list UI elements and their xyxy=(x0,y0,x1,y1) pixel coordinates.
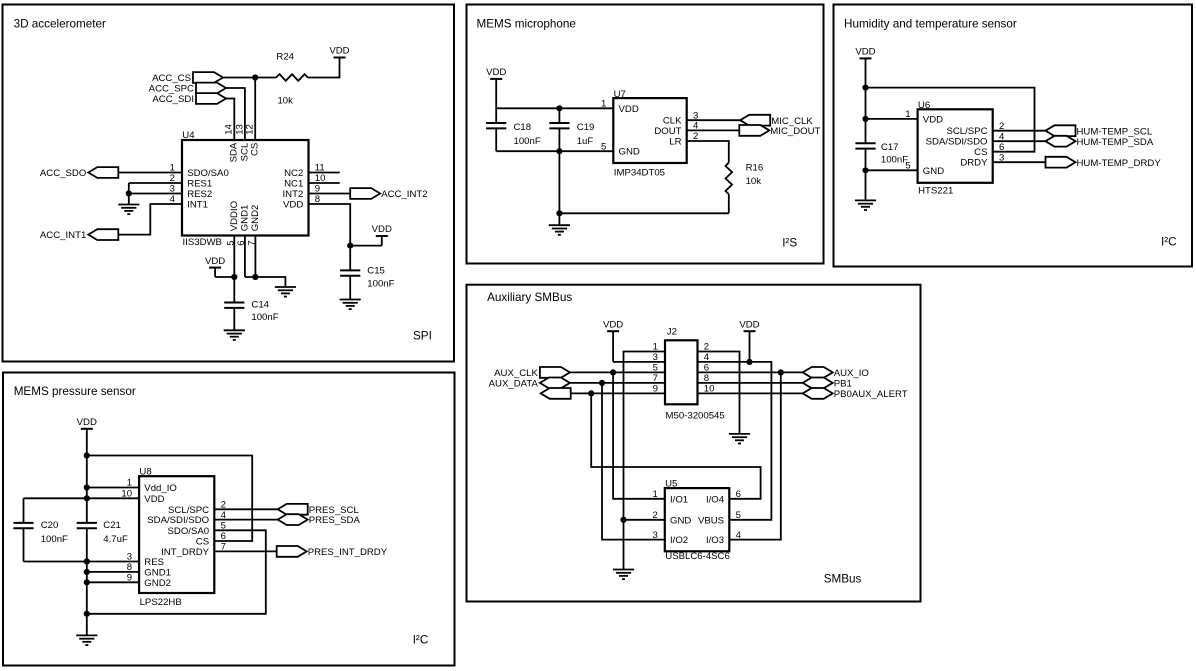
net flag ACC_INT1 xyxy=(40,229,118,241)
net flag HUM-TEMP_DRDY xyxy=(1046,157,1162,169)
U5 left pin names and numbers xyxy=(652,489,691,546)
wire R24 to VDD xyxy=(308,58,340,78)
wire VDD to U6 pin 1 xyxy=(866,118,918,120)
svg-text:I/O1: I/O1 xyxy=(670,494,688,505)
svg-text:GND2: GND2 xyxy=(250,205,261,232)
svg-text:RES: RES xyxy=(144,557,164,568)
net flag PRES_SDA xyxy=(278,514,361,526)
svg-text:AUX_CLK: AUX_CLK xyxy=(494,368,538,379)
svg-text:RES2: RES2 xyxy=(187,189,212,200)
svg-text:HUM-TEMP_DRDY: HUM-TEMP_DRDY xyxy=(1077,158,1162,169)
panel auxiliary SMBus xyxy=(467,285,921,602)
junction VDD / U8 pin 1 xyxy=(84,484,90,490)
svg-text:SDA/SDI/SDO: SDA/SDI/SDO xyxy=(147,515,209,526)
net flag PB1 xyxy=(803,378,852,390)
svg-text:VDD: VDD xyxy=(329,46,349,57)
svg-text:C14: C14 xyxy=(251,300,269,311)
power flag VDD (LPS22HB) xyxy=(77,417,97,456)
panel MEMS pressure sensor xyxy=(3,373,455,666)
svg-text:4: 4 xyxy=(736,530,742,541)
svg-text:VDD: VDD xyxy=(855,47,875,58)
svg-text:MEMS microphone: MEMS microphone xyxy=(477,18,576,31)
svg-text:C15: C15 xyxy=(367,266,385,277)
svg-text:VDD: VDD xyxy=(619,104,639,115)
svg-text:ACC_CS: ACC_CS xyxy=(152,73,191,84)
svg-text:CS: CS xyxy=(250,143,261,156)
wire U4 pin 7 GND2 down xyxy=(254,236,256,278)
power flag VDD (HTS221) xyxy=(855,47,875,88)
wire C20 top stub xyxy=(23,498,25,523)
svg-text:I²C: I²C xyxy=(413,634,429,647)
wire U8 SCL/SPC to flag xyxy=(214,508,277,510)
wire VDD rail down to C17 xyxy=(865,88,867,144)
wire J2 pin 1 to U5 GND xyxy=(624,352,666,520)
svg-text:9: 9 xyxy=(127,573,132,584)
U4 bottom pin names and numbers xyxy=(226,201,262,246)
wire VDD to VDDIO net xyxy=(215,276,234,278)
svg-text:DRDY: DRDY xyxy=(960,158,988,169)
wire C20 bottom stub xyxy=(23,528,25,561)
svg-text:R24: R24 xyxy=(276,52,294,63)
net flag PB0AUX_ALERT xyxy=(803,388,908,400)
junction ground / R16 return xyxy=(556,210,562,216)
svg-text:100nF: 100nF xyxy=(251,312,278,323)
wire ground stem xyxy=(558,213,560,225)
svg-text:3: 3 xyxy=(127,552,132,563)
J2 right pin numbers xyxy=(704,342,715,395)
wire AUX_DATA branch to U5 pin 3 xyxy=(602,383,665,540)
svg-text:PB1: PB1 xyxy=(834,379,852,390)
net flag AUX_IO xyxy=(803,367,869,379)
svg-text:U5: U5 xyxy=(665,478,677,489)
svg-text:SDO/SA0: SDO/SA0 xyxy=(168,526,210,537)
wire U8 SDA to flag xyxy=(214,519,277,521)
junction U4 VDD / C15 xyxy=(347,243,353,249)
wire C18 bottom to GND rail xyxy=(495,129,497,152)
wire VDD rail to C19 top xyxy=(558,108,560,123)
svg-text:VDD: VDD xyxy=(205,256,225,267)
junction ground rail / SDO return xyxy=(84,611,90,617)
svg-text:M50-3200545: M50-3200545 xyxy=(666,411,725,422)
ground (LPS22HB) xyxy=(76,635,97,645)
wire no-connect stub NC1 pin 10 xyxy=(309,182,340,184)
wire ACC_CS flag to R24 xyxy=(223,77,276,79)
capacitor C18 xyxy=(486,122,541,147)
svg-text:LR: LR xyxy=(669,137,681,148)
svg-text:NC1: NC1 xyxy=(284,179,303,190)
ground (U4 GND pins) xyxy=(275,287,296,297)
svg-text:INT1: INT1 xyxy=(187,200,208,211)
svg-text:U4: U4 xyxy=(182,130,195,141)
svg-text:AUX_IO: AUX_IO xyxy=(834,368,869,379)
junction GND2 / ground wire xyxy=(252,274,258,280)
svg-text:ACC_INT1: ACC_INT1 xyxy=(40,230,86,241)
wire R16 bottom to ground net xyxy=(728,194,730,213)
svg-text:HTS221: HTS221 xyxy=(918,185,953,196)
svg-text:SPI: SPI xyxy=(413,330,432,343)
net flag ACC_INT2 xyxy=(350,188,427,200)
capacitor C15 xyxy=(340,266,395,290)
svg-text:Auxiliary SMBus: Auxiliary SMBus xyxy=(487,291,572,304)
wire C14 to ground xyxy=(233,308,235,330)
svg-text:PB0AUX_ALERT: PB0AUX_ALERT xyxy=(834,389,908,400)
svg-text:Humidity and temperature senso: Humidity and temperature sensor xyxy=(844,18,1017,31)
svg-text:HUM-TEMP_SDA: HUM-TEMP_SDA xyxy=(1077,137,1154,148)
svg-text:VDDIO: VDDIO xyxy=(229,201,240,231)
wire U7 DOUT to MIC_DOUT flag xyxy=(687,129,740,131)
svg-text:C18: C18 xyxy=(514,122,532,133)
svg-text:I/O3: I/O3 xyxy=(706,535,724,546)
svg-text:NC2: NC2 xyxy=(284,168,303,179)
svg-text:10: 10 xyxy=(121,489,132,500)
svg-text:INT_DRDY: INT_DRDY xyxy=(161,547,210,558)
wire ground to R16 bottom xyxy=(559,212,728,214)
J2 left pin numbers xyxy=(653,342,658,395)
wire U5 pin 2 GND xyxy=(624,519,665,521)
wire CS tie to VDD loop xyxy=(87,456,252,542)
svg-text:1: 1 xyxy=(905,109,910,120)
wire VDD to U4 VDD net xyxy=(350,245,382,247)
panel humidity and temperature sensor xyxy=(834,5,1193,267)
svg-text:GND: GND xyxy=(923,166,944,177)
wire J2 pin 4 to U5 VBUS xyxy=(698,362,772,520)
wire ACC_SPC to U4 pin 13 SCL xyxy=(226,88,245,140)
junction AUX_DATA / U5 branch xyxy=(599,380,605,386)
wire U4 pin 5 VDDIO down to C14 xyxy=(233,236,235,303)
resistor R16 xyxy=(726,163,733,195)
svg-text:1: 1 xyxy=(127,478,132,489)
svg-text:5: 5 xyxy=(601,141,606,152)
svg-text:3: 3 xyxy=(652,530,657,541)
svg-text:100nF: 100nF xyxy=(41,534,68,545)
wire CS tie to VDD loop xyxy=(866,88,1035,152)
junction VDD / CS loop xyxy=(84,452,90,458)
U8 left pin names and numbers xyxy=(121,478,176,589)
svg-text:C21: C21 xyxy=(103,520,121,531)
wire C17 bottom to ground rail xyxy=(865,149,867,201)
net flag AUX_CLK xyxy=(494,367,570,379)
U7 right pin names and numbers xyxy=(654,110,699,147)
svg-text:J2: J2 xyxy=(667,326,677,337)
wire U7 CLK to MIC_CLK flag xyxy=(687,119,741,121)
svg-text:ACC_SDI: ACC_SDI xyxy=(152,94,194,105)
svg-text:INT2: INT2 xyxy=(283,189,304,200)
ground (U5 GND) xyxy=(613,570,634,580)
capacitor C17 xyxy=(855,142,908,166)
wire unnamed net to U5 pin 6 xyxy=(591,393,760,498)
wire J2 pin 2 to ground xyxy=(698,352,740,434)
U6 right pin names and numbers xyxy=(926,121,1005,169)
junction ground rail / GND2 xyxy=(84,579,90,585)
svg-text:DOUT: DOUT xyxy=(654,126,681,137)
wire AUX_CLK to J2 pin 5 xyxy=(570,371,665,373)
power flag VDD (R24 pull-up) xyxy=(329,46,349,58)
svg-text:SDO/SA0: SDO/SA0 xyxy=(187,168,229,179)
svg-text:USBLC6-4SC6: USBLC6-4SC6 xyxy=(665,551,730,562)
junction RES2 / ground stem xyxy=(126,190,132,196)
power flag VDD (J2 pin 4) xyxy=(739,319,759,362)
wire GND1/GND2 to ground xyxy=(245,277,286,287)
svg-text:SCL/SPC: SCL/SPC xyxy=(946,126,987,137)
wire ground rail to U8 pin 3 RES xyxy=(24,561,140,563)
wire VDD rail to C20 and U8 pin 10 xyxy=(24,497,140,499)
wire unnamed flag to J2 pin 9 xyxy=(571,392,665,394)
wire ACC_SDI to U4 pin 14 SDA xyxy=(226,99,234,141)
capacitor C21 xyxy=(77,520,128,545)
wire ACC_INT1 to U4 pin 4 xyxy=(118,204,182,235)
wire U7 LR to R16 top xyxy=(687,141,729,163)
svg-text:SMBus: SMBus xyxy=(824,573,862,586)
wire U4 pin 8 VDD down to C15 xyxy=(309,204,351,271)
svg-text:10k: 10k xyxy=(746,176,762,187)
svg-text:3: 3 xyxy=(653,352,658,363)
wire C15 to ground xyxy=(349,276,351,300)
junction AUX_CLK / U5 branch xyxy=(610,369,616,375)
svg-text:U8: U8 xyxy=(139,466,151,477)
wire no-connect stub NC2 pin 11 xyxy=(309,172,340,174)
svg-text:SDA/SDI/SDO: SDA/SDI/SDO xyxy=(926,137,988,148)
svg-text:8: 8 xyxy=(127,562,132,573)
junction VDD / CS loop xyxy=(862,85,868,91)
net flag ACC_CS xyxy=(152,72,223,84)
svg-text:I²C: I²C xyxy=(1161,236,1177,249)
capacitor C14 xyxy=(224,300,279,323)
svg-text:IIS3DWB: IIS3DWB xyxy=(183,237,222,248)
svg-text:12: 12 xyxy=(245,124,256,135)
IC U7 MEMS microphone IMP34DT05 xyxy=(613,89,686,163)
svg-text:I/O2: I/O2 xyxy=(670,535,688,546)
U4 left pin names and numbers xyxy=(170,163,229,211)
svg-text:GND1: GND1 xyxy=(144,567,171,578)
wire U8 INT_DRDY to flag xyxy=(214,550,276,552)
junction ground rail / GND1 xyxy=(84,569,90,575)
svg-text:I²S: I²S xyxy=(782,237,797,250)
svg-text:MEMS pressure sensor: MEMS pressure sensor xyxy=(14,385,136,398)
svg-text:10k: 10k xyxy=(277,96,293,107)
svg-text:ACC_SDO: ACC_SDO xyxy=(40,168,86,179)
svg-text:1uF: 1uF xyxy=(577,136,594,147)
svg-text:GND: GND xyxy=(619,147,640,158)
net flag ACC_SPC xyxy=(149,83,226,95)
net flag MIC_DOUT xyxy=(739,125,820,137)
junction VDD / J2 pin 4 net xyxy=(746,359,752,365)
svg-text:C20: C20 xyxy=(41,520,59,531)
svg-text:5: 5 xyxy=(221,521,226,532)
wire VDD to U8 pin 1 Vdd_IO xyxy=(87,487,139,489)
power flag VDD (U4 VDD pin) xyxy=(372,224,392,245)
wire U6 SDA to flag xyxy=(993,140,1046,142)
junction GND / U6 pin 5 xyxy=(862,167,868,173)
wire U6 SCL/SPC to flag xyxy=(993,130,1046,132)
wire U4 pin 6 GND1 down xyxy=(244,236,246,278)
wire C19 bottom to GND rail xyxy=(558,129,560,152)
svg-text:VDD: VDD xyxy=(77,417,97,428)
junction VDDIO / C14 xyxy=(231,274,237,280)
wire U6 DRDY to flag xyxy=(993,161,1046,163)
net flag PRES_INT_DRDY xyxy=(277,546,388,558)
U4 right pin names and numbers xyxy=(283,163,326,211)
svg-text:5: 5 xyxy=(905,161,910,172)
wire VDD to C18 top xyxy=(495,108,497,123)
ground (RES1/RES2) xyxy=(118,205,139,215)
svg-text:SDA: SDA xyxy=(229,142,240,162)
panel MEMS microphone xyxy=(467,5,824,264)
svg-text:AUX_DATA: AUX_DATA xyxy=(489,379,539,390)
wire U5 GND to ground xyxy=(623,520,625,570)
svg-text:100nF: 100nF xyxy=(514,136,541,147)
wire AUX_DATA to J2 pin 7 xyxy=(570,382,665,384)
net flag PRES_SCL xyxy=(278,504,360,516)
wire AUX_CLK branch to U5 pin 1 xyxy=(613,372,665,498)
wire ground rail to U8 pin 8 GND1 xyxy=(87,571,139,573)
svg-text:1: 1 xyxy=(652,489,657,500)
svg-text:VDD: VDD xyxy=(283,200,303,211)
svg-text:ACC_SPC: ACC_SPC xyxy=(149,84,194,95)
junction GND rail / C19 xyxy=(556,148,562,154)
junction ground rail / RES xyxy=(84,558,90,564)
junction unnamed net / U5 branch xyxy=(588,390,594,396)
wire SDO/SA0 tie to ground loop xyxy=(87,530,266,614)
svg-text:6: 6 xyxy=(221,531,226,542)
svg-text:5: 5 xyxy=(736,510,741,521)
capacitor C20 xyxy=(13,520,68,545)
ground (microphone) xyxy=(549,225,570,235)
connector J2 M50-3200545 xyxy=(665,326,698,404)
svg-text:PRES_INT_DRDY: PRES_INT_DRDY xyxy=(308,547,388,558)
svg-text:R16: R16 xyxy=(746,162,764,173)
junction U5 GND / J2 pin 1 xyxy=(620,517,626,523)
svg-text:PRES_SDA: PRES_SDA xyxy=(309,515,361,526)
wire RES1 to ground net xyxy=(129,182,182,184)
wire RES2 to ground net xyxy=(129,193,182,195)
svg-text:GND1: GND1 xyxy=(240,205,251,232)
net flag unnamed (J2 pin 9) xyxy=(541,388,571,399)
svg-text:VDD: VDD xyxy=(923,114,943,125)
svg-text:LPS22HB: LPS22HB xyxy=(140,597,182,608)
U6 left pin names and numbers xyxy=(905,109,944,177)
net flag HUM-TEMP_SCL xyxy=(1046,125,1153,137)
svg-text:VDD: VDD xyxy=(372,224,392,235)
panel 3D accelerometer xyxy=(3,5,455,362)
svg-text:100nF: 100nF xyxy=(881,154,908,165)
svg-text:IMP34DT05: IMP34DT05 xyxy=(614,168,665,179)
U5 right pin names and numbers xyxy=(698,489,742,546)
wire GND rail down to ground xyxy=(558,151,560,213)
ground (HTS221) xyxy=(855,200,876,210)
svg-text:GND2: GND2 xyxy=(144,578,171,589)
wire VDD rail to U7 pin 1 xyxy=(496,107,613,109)
svg-text:1: 1 xyxy=(601,99,606,110)
svg-text:HUM-TEMP_SCL: HUM-TEMP_SCL xyxy=(1077,126,1153,137)
svg-text:C17: C17 xyxy=(881,142,899,153)
U4 top pin names and numbers xyxy=(224,123,261,162)
svg-text:GND: GND xyxy=(670,515,691,526)
junction ACC_CS / CS pull-up node xyxy=(252,74,258,80)
wire GND to U6 pin 5 xyxy=(866,169,918,171)
IC U4 accelerometer IIS3DWB xyxy=(182,130,309,236)
svg-text:U6: U6 xyxy=(918,100,930,111)
svg-text:6: 6 xyxy=(736,489,741,500)
svg-text:I/O4: I/O4 xyxy=(706,494,725,505)
svg-text:MIC_DOUT: MIC_DOUT xyxy=(770,126,820,137)
svg-text:ACC_INT2: ACC_INT2 xyxy=(381,189,427,200)
net flag ACC_SDI xyxy=(152,93,226,105)
wire C21 bottom / ground rail xyxy=(86,528,88,635)
svg-text:4.7uF: 4.7uF xyxy=(103,534,128,545)
wire VDD rail down to C21 xyxy=(86,456,88,523)
svg-text:CS: CS xyxy=(974,147,987,158)
wire ground rail to U8 pin 9 GND2 xyxy=(87,581,139,583)
power flag VDD (VDDIO) xyxy=(205,256,225,277)
ground (C14) xyxy=(224,330,245,340)
svg-text:VDD: VDD xyxy=(486,67,506,78)
junction VDD / U6 pin 1 xyxy=(862,116,868,122)
svg-text:VBUS: VBUS xyxy=(698,515,724,526)
U8 right pin names and numbers xyxy=(147,500,226,558)
capacitor C19 xyxy=(549,122,594,147)
svg-text:100nF: 100nF xyxy=(367,279,394,290)
power flag VDD (J2 pin 3) xyxy=(603,319,623,362)
svg-text:Vdd_IO: Vdd_IO xyxy=(144,483,177,494)
wire RES1/RES2 ground stem xyxy=(128,183,130,205)
svg-text:VDD: VDD xyxy=(739,319,759,330)
wire J2 pin 10 to PB0AUX_ALERT flag xyxy=(698,392,803,394)
net flag AUX_DATA xyxy=(489,378,570,390)
wire AUX_IO branch to U5 pin 4 xyxy=(729,372,781,539)
svg-text:VDD: VDD xyxy=(603,319,623,330)
svg-text:VDD: VDD xyxy=(144,494,164,505)
net flag MIC_CLK xyxy=(740,115,813,127)
svg-text:3D accelerometer: 3D accelerometer xyxy=(14,17,106,30)
wire J2 pin 6 to AUX_IO flag xyxy=(698,371,803,373)
net flag HUM-TEMP_SDA xyxy=(1046,136,1154,148)
svg-text:14: 14 xyxy=(224,123,235,134)
IC U8 pressure sensor LPS22HB xyxy=(139,466,214,593)
wire CS net down to U4 pin 12 xyxy=(254,78,256,141)
junction AUX_IO / U5 branch xyxy=(778,369,784,375)
svg-text:CS: CS xyxy=(196,537,209,548)
wire ACC_SDO to U4 pin 1 xyxy=(118,172,182,174)
junction VDD / U8 pin 10 / C20 xyxy=(84,495,90,501)
ground (J2 pin 2) xyxy=(729,434,750,444)
IC U6 humidity sensor HTS221 xyxy=(918,100,993,183)
U7 left pin names and numbers xyxy=(601,99,640,158)
ground (C15) xyxy=(340,300,361,310)
svg-text:U7: U7 xyxy=(614,89,626,100)
power flag VDD (microphone) xyxy=(486,67,506,108)
wire J2 pin 8 to PB1 flag xyxy=(698,382,803,384)
junction VDD rail / C19 xyxy=(556,105,562,111)
wire VDD to J2 pin 3 xyxy=(613,361,665,363)
net flag ACC_SDO xyxy=(40,167,118,179)
wire GND rail to U7 pin 5 xyxy=(496,150,613,152)
svg-text:RES1: RES1 xyxy=(187,179,212,190)
svg-text:C19: C19 xyxy=(577,122,595,133)
wire U4 pin 9 INT2 to flag xyxy=(309,193,351,195)
IC U5 ESD protection USBLC6-4SC6 xyxy=(665,478,730,551)
resistor R24 xyxy=(276,74,308,81)
svg-text:6: 6 xyxy=(999,142,1004,153)
